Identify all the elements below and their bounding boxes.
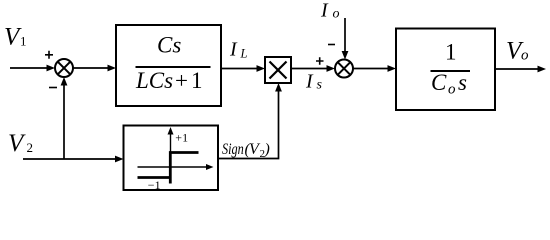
svg-text:V: V bbox=[8, 130, 26, 157]
svg-text:1: 1 bbox=[191, 68, 203, 93]
svg-text:−1: −1 bbox=[148, 178, 161, 192]
svg-text:I: I bbox=[229, 39, 238, 61]
svg-text:Cs: Cs bbox=[157, 33, 181, 58]
svg-text:C: C bbox=[431, 70, 447, 95]
svg-text:2: 2 bbox=[27, 140, 34, 155]
svg-text:+1: +1 bbox=[175, 131, 188, 145]
svg-text:+: + bbox=[175, 68, 188, 93]
svg-text:LCs: LCs bbox=[135, 68, 173, 93]
svg-text:s: s bbox=[458, 70, 467, 95]
svg-text:1: 1 bbox=[20, 34, 27, 49]
svg-text:L: L bbox=[240, 47, 248, 61]
svg-text:I: I bbox=[320, 0, 329, 22]
svg-text:Sign: Sign bbox=[222, 141, 244, 158]
svg-text:o: o bbox=[333, 6, 340, 21]
svg-text:s: s bbox=[317, 77, 323, 92]
svg-text:1: 1 bbox=[445, 40, 457, 65]
svg-text:): ) bbox=[264, 141, 270, 158]
svg-text:o: o bbox=[448, 82, 456, 98]
svg-text:I: I bbox=[305, 71, 314, 93]
svg-text:o: o bbox=[521, 47, 529, 63]
